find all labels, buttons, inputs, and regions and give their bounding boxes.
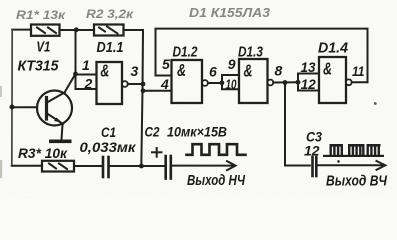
label R3 value	[18, 145, 68, 161]
pin 11 label	[352, 63, 365, 79]
LF square wave icon	[187, 144, 246, 155]
wire: left rail vertical	[11, 30, 13, 166]
wire: R1 to node A	[60, 29, 77, 31]
gate D1.2 output bubble pin 6	[202, 80, 208, 86]
gate D1.4 output bubble pin 11	[346, 79, 352, 85]
gate D1.3 output bubble pin 8	[268, 80, 274, 86]
gate D1.4 body	[319, 57, 346, 103]
node: pin4/node B dot	[141, 88, 146, 93]
label C2	[145, 124, 160, 140]
gate D1.2 body	[172, 60, 203, 103]
label C3	[306, 129, 322, 145]
wire: top left rail from left rail to R1	[12, 29, 31, 31]
pin 2 label	[84, 76, 93, 92]
label V1	[36, 40, 50, 56]
gate D1.3 ampersand	[244, 61, 253, 81]
wire: pin3 to node B	[128, 83, 143, 85]
label R1 value	[16, 8, 66, 22]
pin 8 label	[275, 62, 283, 78]
capacitor C2	[166, 156, 171, 179]
label D1.4	[318, 41, 348, 57]
label D1.3	[238, 45, 263, 61]
wire: R3 to C1	[74, 165, 101, 167]
wire: C3 drop from pin8 node	[285, 83, 310, 166]
label C3 value 12	[304, 143, 320, 159]
label C1 value	[80, 139, 137, 155]
wire: pin 8 to D1.4 inputs	[273, 81, 298, 83]
capacitor C3	[313, 157, 317, 176]
pin 5 label	[162, 56, 170, 72]
wire: emitter down to ground	[62, 125, 63, 140]
gate D1.1 body	[97, 62, 123, 104]
scan speck near D1.4	[374, 102, 377, 105]
resistor R1	[31, 25, 60, 36]
node: C3 tap dot	[283, 80, 288, 85]
gate D1.2 ampersand	[177, 60, 186, 80]
pin 6 label	[209, 64, 217, 80]
pin 3 label	[131, 63, 139, 79]
label C1	[101, 124, 116, 140]
node: collector/input junction dot	[73, 72, 78, 77]
wire: collector up to node A dot	[65, 31, 76, 93]
scan smudge left edge upper	[0, 86, 2, 97]
wire: base wire to transistor	[12, 106, 37, 108]
node: node B bottom dot	[139, 164, 144, 169]
wire: R2 to node B corner	[124, 29, 144, 31]
label D1.1	[97, 40, 124, 56]
wire: D1.4 input pair rectangle (pins 13,12)	[298, 73, 319, 75]
capacitor C1	[103, 157, 109, 177]
wire: pin 6 to D1.3 inputs	[208, 82, 222, 84]
wire: bottom rail left to R3	[12, 165, 42, 167]
gate D1.1 ampersand	[100, 60, 109, 80]
pin 10 label	[226, 76, 237, 92]
node: D1.4 input dot	[296, 80, 301, 85]
label R2 value	[86, 7, 134, 21]
wire: pin 11 to feedback corner	[352, 81, 368, 83]
node: base junction dot	[10, 105, 15, 110]
label HF output	[326, 174, 388, 190]
pin 12 label	[301, 76, 316, 92]
resistor R3	[42, 161, 74, 172]
wire: node B to pin 4	[143, 90, 172, 92]
wire: feedback rail from pin 11 to pin 5	[156, 29, 368, 83]
gate D1.3 body	[239, 59, 268, 103]
resistor R2	[94, 25, 124, 36]
wire: LF output arrow	[172, 161, 236, 170]
label D1.2	[173, 45, 198, 61]
label D1 chip	[189, 6, 270, 20]
label LF output	[187, 173, 246, 189]
label C2 value	[167, 125, 227, 140]
label V1 type KT315	[18, 59, 60, 75]
pin 13 label	[301, 59, 316, 75]
gate D1.4 ampersand	[323, 58, 332, 78]
transistor Q V1 KT315	[37, 91, 72, 126]
C2 plus sign	[152, 148, 162, 157]
pin 4 label	[160, 76, 169, 92]
wire: D1.1 input pair rectangle (pins 1,2)	[76, 74, 97, 76]
HF burst icon	[323, 144, 384, 163]
ground bar	[49, 140, 72, 144]
node: D1.3 input dot	[220, 80, 225, 85]
wire: C1 to C2	[110, 165, 165, 167]
wire: HF output arrow	[318, 161, 385, 170]
wire: node A to R2	[76, 29, 94, 31]
wire: D1.3 input pair rectangle (pins 9,10)	[222, 74, 239, 76]
pin 1 label	[82, 57, 90, 73]
scan smudge left edge lower	[0, 160, 2, 178]
gate D1.1 output bubble pin 3	[122, 81, 128, 87]
pin 9 label	[228, 56, 236, 72]
node: pin3/node B dot	[141, 82, 146, 87]
wire: node B vertical down to bottom rail	[141, 30, 143, 166]
node A junction dot	[74, 27, 79, 32]
